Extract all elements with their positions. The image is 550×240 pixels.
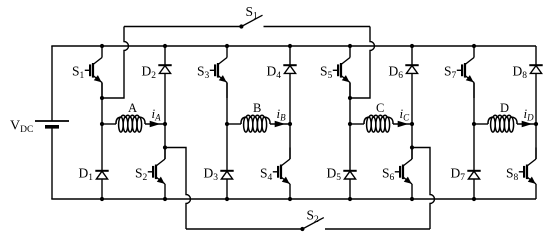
wire: winding D left node to D lower diode — [473, 124, 475, 171]
wire: bypass riser with hop over bottom rail (right, from S6 collector node) — [412, 148, 435, 230]
label D1 — [79, 166, 94, 184]
node: winding right junction — [410, 122, 414, 126]
transistor S7 (IGBT, phase D upper switch) — [457, 46, 474, 98]
wire: negative DC bottom rail — [51, 198, 536, 200]
label S3 — [197, 64, 210, 82]
wire: top rail to diode D8 cathode — [535, 46, 537, 65]
label S1 — [72, 64, 85, 82]
node: bottom rail junction — [472, 197, 476, 201]
node: winding right junction — [163, 122, 167, 126]
wire: bottom bypass left segment — [186, 228, 302, 230]
diode D1 (phase A lower freewheel) — [95, 171, 108, 179]
wire: winding C left lead — [350, 123, 364, 125]
switch S1 lever — [241, 15, 262, 26]
label phase D — [500, 101, 509, 115]
wire: top bypass right segment — [264, 26, 371, 28]
label S5 — [320, 64, 333, 82]
wire: S5 emitter to winding C left node — [349, 83, 351, 125]
node: winding left junction — [472, 122, 476, 126]
wire: D8 anode down through winding D right node to S8 collector — [535, 73, 537, 159]
wire: D4 anode down through winding B right node to S4 collector — [289, 73, 291, 159]
transistor S3 (IGBT, phase B upper switch) — [210, 46, 227, 98]
diode D6 (phase C upper freewheel) — [405, 65, 418, 73]
label phase B — [253, 101, 261, 115]
node: top rail junction — [163, 44, 167, 48]
current arrow iD — [522, 121, 533, 127]
transistor S1 (IGBT, phase A upper switch) — [85, 46, 102, 98]
node: winding right junction — [288, 122, 292, 126]
current arrow iA — [150, 121, 161, 127]
label iA — [152, 106, 162, 123]
svg-text:C: C — [376, 101, 384, 115]
label D7 — [451, 166, 466, 184]
wire: winding A to right node — [145, 123, 165, 125]
node: winding left junction — [348, 122, 352, 126]
label S1 (bypass switch) — [246, 4, 259, 22]
transistor S8 (IGBT, phase D lower switch) — [519, 148, 536, 200]
wire: S7 emitter to winding D left node — [473, 83, 475, 125]
svg-text:B: B — [253, 101, 261, 115]
node: top rail junction — [100, 44, 104, 48]
label phase A — [128, 101, 137, 115]
node: bottom rail junction — [288, 197, 292, 201]
diode D4 (phase B upper freewheel) — [283, 65, 296, 73]
node: bottom rail junction — [348, 197, 352, 201]
label phase C — [376, 101, 384, 115]
wire: top rail to diode D4 cathode — [289, 46, 291, 65]
wire: battery to bottom rail — [51, 127, 53, 199]
label S2 — [135, 166, 148, 184]
wire: D3 anode to bottom rail — [226, 179, 228, 199]
node: top rail junction — [288, 44, 292, 48]
label S6 — [382, 166, 395, 184]
node: bottom rail junction — [225, 197, 229, 201]
wire: D6 anode down through winding C right node to S6 collector — [411, 73, 413, 159]
inductor winding D (phase coil) — [488, 115, 517, 132]
node: top rail junction — [225, 44, 229, 48]
wire: bypass riser with hop over bottom rail (left, from S2 collector node) — [165, 148, 191, 230]
label S4 — [260, 166, 273, 184]
wire: winding D left lead — [474, 123, 488, 125]
wire: winding A left node to D lower diode — [101, 124, 103, 171]
wire: top rail to diode D2 cathode — [164, 46, 166, 65]
wire: top rail to diode D6 cathode — [411, 46, 413, 65]
node: top rail junction — [410, 44, 414, 48]
wire: bypass drop with hop over top rail (left, to S1 emitter node) — [102, 27, 129, 99]
label S7 — [444, 64, 457, 82]
label S8 — [506, 166, 519, 184]
label D8 — [513, 64, 528, 82]
label D5 — [327, 166, 342, 184]
node: S1 emitter bypass tap — [100, 96, 104, 100]
wire: winding D to right node — [517, 123, 536, 125]
label D3 — [204, 166, 219, 184]
node: S2 collector bypass tap — [163, 145, 167, 149]
node: switch S1 pivot — [239, 24, 243, 28]
node: winding left junction — [100, 122, 104, 126]
label S2 (bypass switch) — [307, 208, 320, 226]
current arrow iB — [275, 121, 286, 127]
wire: bottom bypass right segment — [325, 228, 430, 230]
wire: S3 emitter to winding B left node — [226, 83, 228, 125]
diode D8 (phase D upper freewheel) — [529, 65, 542, 73]
transistor S2 (IGBT, phase A lower switch) — [148, 148, 165, 200]
label iC — [400, 106, 411, 123]
inductor winding B (phase coil) — [241, 115, 270, 132]
battery VDC (DC source) — [35, 121, 69, 127]
label D4 — [267, 64, 282, 82]
wire: D7 anode to bottom rail — [473, 179, 475, 199]
wire: winding B left lead — [227, 123, 241, 125]
wire: D2 anode down through winding A right node to S2 collector — [164, 73, 166, 159]
transistor S6 (IGBT, phase C lower switch) — [395, 148, 412, 200]
wire: winding C left node to D lower diode — [349, 124, 351, 171]
wire: winding C to right node — [393, 123, 412, 125]
current arrow iC — [398, 121, 409, 127]
diode D2 (phase A upper freewheel) — [158, 65, 171, 73]
transistor S4 (IGBT, phase B lower switch) — [273, 148, 290, 200]
label VDC — [10, 119, 33, 136]
node: switch S2 pivot — [300, 227, 304, 231]
node: bottom rail junction — [100, 197, 104, 201]
wire: D1 anode to bottom rail — [101, 179, 103, 199]
diode D5 (phase C lower freewheel) — [343, 171, 356, 179]
wire: top bypass left segment — [124, 26, 241, 28]
label iB — [277, 106, 287, 123]
inductor winding A (phase coil) — [116, 115, 145, 132]
node: bottom rail junction — [163, 197, 167, 201]
node: winding left junction — [225, 122, 229, 126]
wire: battery to top rail — [51, 46, 53, 121]
wire: S1 emitter to winding A left node — [101, 83, 103, 125]
label D6 — [389, 64, 404, 82]
label iD — [524, 106, 535, 123]
wire: winding B to right node — [270, 123, 290, 125]
node: winding right junction — [534, 122, 538, 126]
node: top rail junction — [348, 44, 352, 48]
diode D7 (phase D lower freewheel) — [467, 171, 480, 179]
node: bottom rail junction — [410, 197, 414, 201]
wire: D5 anode to bottom rail — [349, 179, 351, 199]
diode D3 (phase B lower freewheel) — [220, 171, 233, 179]
wire: winding B left node to D lower diode — [226, 124, 228, 171]
switch S2 lever — [302, 218, 323, 229]
wire: winding A left lead — [102, 123, 116, 125]
node: S5 emitter bypass tap — [348, 96, 352, 100]
svg-text:D: D — [500, 101, 509, 115]
transistor S5 (IGBT, phase C upper switch) — [333, 46, 350, 98]
svg-text:A: A — [128, 101, 137, 115]
node: S6 collector bypass tap — [410, 145, 414, 149]
wire: bypass drop with hop over top rail (right, to S5 emitter node) — [350, 27, 375, 99]
wire: positive DC top rail — [51, 45, 536, 47]
label D2 — [142, 64, 157, 82]
node: top rail junction — [472, 44, 476, 48]
inductor winding C (phase coil) — [364, 115, 393, 132]
